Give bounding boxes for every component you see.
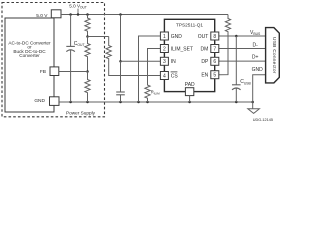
node dots on top rail	[69, 13, 72, 16]
ground rail	[59, 101, 253, 103]
DP wire pin6 to D+	[219, 60, 266, 62]
USB GND wire	[253, 75, 266, 109]
IN feed wire from rail	[120, 15, 122, 62]
svg-text:4: 4	[163, 73, 166, 79]
resistor R3 (CS feedback)	[106, 37, 160, 76]
svg-text:TPS2511-Q1: TPS2511-Q1	[176, 23, 203, 28]
USB connector body	[266, 28, 280, 83]
IN wire to pin 3	[121, 60, 161, 62]
svg-text:GND: GND	[171, 34, 183, 40]
PAD to ground wire	[189, 96, 191, 102]
top 5.0V rail	[61, 14, 228, 16]
resistor R1 top of divider	[85, 15, 90, 37]
svg-text:UDG-12145: UDG-12145	[253, 118, 273, 122]
FB pin box	[50, 67, 59, 76]
chip right pin boxes	[211, 32, 219, 40]
ILIM_SET wire and resistor RILIM	[145, 49, 160, 102]
svg-text:IN: IN	[171, 59, 176, 65]
GND pin1 wire of chip	[139, 36, 161, 102]
svg-text:Power Supply: Power Supply	[66, 110, 96, 115]
svg-text:EN: EN	[201, 73, 208, 79]
capacitor CUSB	[235, 36, 237, 85]
5.0 V output terminal box	[51, 10, 61, 18]
power supply dashed boundary	[2, 3, 105, 117]
FB node	[86, 70, 89, 73]
GND pin box	[50, 97, 60, 106]
converter box	[5, 18, 54, 112]
svg-text:USB Connector: USB Connector	[271, 37, 277, 74]
svg-text:OUT: OUT	[198, 34, 209, 40]
node between R1 and R2	[86, 35, 89, 38]
svg-text:ILIM_SET: ILIM_SET	[171, 46, 193, 52]
DM wire pin7 to D-	[219, 48, 266, 50]
svg-text:5.0 V: 5.0 V	[36, 13, 48, 19]
label tick	[77, 9, 79, 15]
svg-text:DP: DP	[201, 59, 209, 65]
svg-text:Converter: Converter	[19, 53, 40, 58]
svg-text:CS: CS	[171, 73, 179, 79]
capacitor COUT	[70, 15, 72, 47]
svg-text:DM: DM	[201, 46, 209, 52]
svg-text:5: 5	[213, 73, 216, 79]
IN node dot	[119, 60, 122, 63]
resistor R4 bottom of divider	[85, 72, 90, 102]
wire from divider node to R3	[88, 36, 109, 38]
FB wire	[59, 71, 88, 73]
svg-text:8: 8	[213, 34, 216, 40]
svg-text:6: 6	[213, 59, 216, 65]
VBUS node dot	[235, 35, 238, 38]
OUT wire pin8 to VBUS	[219, 35, 266, 37]
resistor R2 middle of divider	[85, 37, 90, 72]
svg-text:1: 1	[163, 34, 166, 40]
PAD box	[185, 88, 193, 96]
svg-text:3: 3	[163, 59, 166, 65]
svg-text:D-: D-	[253, 43, 259, 49]
ground symbol	[248, 109, 260, 114]
capacitor CIN	[120, 61, 122, 92]
svg-text:FB: FB	[40, 69, 46, 75]
svg-text:GND: GND	[34, 98, 45, 104]
svg-text:2: 2	[163, 46, 166, 52]
svg-text:7: 7	[213, 46, 216, 52]
resistor R5 EN pull-up	[219, 15, 231, 75]
chip left pin boxes	[160, 32, 168, 40]
chip TPS2511-Q1 body	[164, 19, 214, 91]
svg-text:GND: GND	[252, 67, 264, 73]
svg-text:D+: D+	[252, 55, 259, 61]
